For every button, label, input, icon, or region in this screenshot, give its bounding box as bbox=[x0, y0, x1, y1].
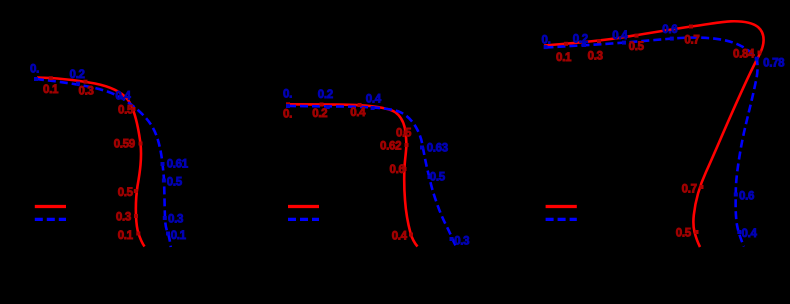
svg-text:0.7: 0.7 bbox=[682, 184, 697, 196]
red curve 3 bbox=[544, 21, 764, 247]
svg-text:0.: 0. bbox=[30, 64, 39, 76]
svg-text:0.1: 0.1 bbox=[43, 84, 59, 96]
svg-text:0.3: 0.3 bbox=[454, 236, 469, 248]
svg-text:0.63: 0.63 bbox=[427, 142, 448, 154]
svg-text:0.: 0. bbox=[283, 109, 292, 121]
legend 1 red bbox=[35, 205, 66, 208]
svg-text:0.4: 0.4 bbox=[612, 30, 628, 42]
svg-text:0.59: 0.59 bbox=[114, 139, 135, 151]
svg-text:0.2: 0.2 bbox=[573, 34, 588, 46]
svg-text:0.5: 0.5 bbox=[118, 187, 134, 199]
svg-text:0.6: 0.6 bbox=[662, 24, 677, 36]
svg-text:0.: 0. bbox=[283, 88, 292, 100]
legend 3 blue bbox=[546, 218, 577, 221]
svg-text:0.6: 0.6 bbox=[390, 164, 405, 176]
blue curve 3 bbox=[546, 38, 758, 247]
svg-text:0.2: 0.2 bbox=[318, 89, 333, 101]
red curve 1 bbox=[37, 78, 145, 247]
svg-text:0.5: 0.5 bbox=[629, 41, 645, 53]
svg-text:0.1: 0.1 bbox=[118, 230, 134, 242]
red labels 1 bbox=[43, 84, 135, 242]
svg-text:0.4: 0.4 bbox=[392, 230, 408, 242]
svg-text:0.78: 0.78 bbox=[763, 57, 785, 69]
svg-text:0.1: 0.1 bbox=[556, 52, 572, 64]
svg-text:0.5: 0.5 bbox=[167, 177, 183, 189]
svg-text:0.84: 0.84 bbox=[733, 49, 755, 61]
legend 3 red bbox=[546, 205, 577, 208]
svg-text:0.4: 0.4 bbox=[115, 91, 131, 103]
legend 2 red bbox=[288, 205, 319, 208]
svg-text:0.3: 0.3 bbox=[79, 86, 94, 98]
svg-text:0.2: 0.2 bbox=[70, 69, 85, 81]
blue labels 1 bbox=[30, 64, 189, 242]
blue markers 2 bbox=[286, 104, 454, 241]
svg-text:0.4: 0.4 bbox=[350, 107, 366, 119]
svg-text:0.3: 0.3 bbox=[116, 211, 131, 223]
svg-text:0.7: 0.7 bbox=[684, 34, 699, 46]
red labels 2 bbox=[283, 107, 412, 243]
legend 1 blue bbox=[35, 218, 66, 221]
svg-text:0.3: 0.3 bbox=[588, 51, 603, 63]
svg-text:0.5: 0.5 bbox=[118, 105, 134, 117]
svg-text:0.4: 0.4 bbox=[366, 94, 382, 106]
svg-text:0.5: 0.5 bbox=[430, 171, 446, 183]
red markers 1 bbox=[49, 76, 143, 235]
svg-text:0.61: 0.61 bbox=[167, 159, 189, 171]
red markers 3 bbox=[564, 25, 762, 235]
svg-text:0.62: 0.62 bbox=[380, 140, 401, 152]
svg-text:0.6: 0.6 bbox=[739, 190, 754, 202]
blue curve 2 bbox=[288, 106, 457, 247]
svg-text:0.2: 0.2 bbox=[312, 108, 327, 120]
svg-text:0.: 0. bbox=[542, 35, 551, 47]
blue markers 3 bbox=[544, 37, 759, 234]
blue labels 2 bbox=[283, 88, 469, 247]
red labels 3 bbox=[556, 34, 755, 239]
red curve 2 bbox=[288, 104, 418, 246]
svg-text:0.5: 0.5 bbox=[396, 128, 412, 140]
svg-text:0.3: 0.3 bbox=[168, 214, 183, 226]
svg-text:0.4: 0.4 bbox=[742, 228, 758, 240]
svg-text:0.1: 0.1 bbox=[171, 230, 187, 242]
blue labels 3 bbox=[542, 24, 786, 240]
blue markers 1 bbox=[34, 77, 170, 236]
legend 2 blue bbox=[288, 218, 319, 221]
red markers 2 bbox=[286, 102, 413, 236]
blue curve 1 bbox=[36, 79, 171, 247]
svg-text:0.5: 0.5 bbox=[676, 227, 692, 239]
